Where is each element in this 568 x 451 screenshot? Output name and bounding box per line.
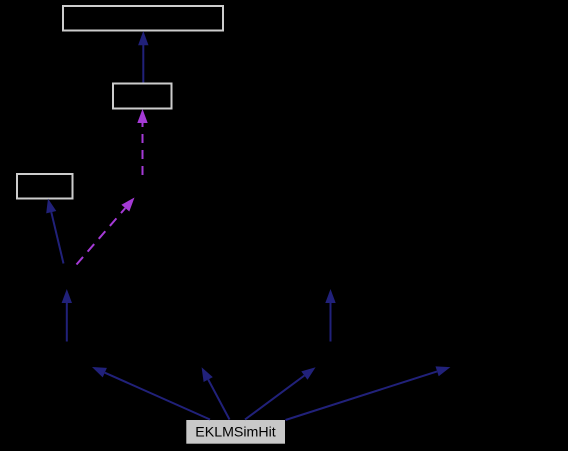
inheritance arrow from EKLMSimHit right-middle (solid navy): [245, 367, 316, 419]
usage arrow diagonal dashed purple toward middle column: [77, 198, 135, 265]
inheritance arrow from EKLMSimHit far left (solid navy): [92, 367, 210, 420]
inheritance arrow into left box (solid navy diagonal): [46, 199, 63, 264]
inheritance arrow vertical left column (solid navy): [62, 289, 72, 342]
class box (middle, empty label): [113, 84, 172, 109]
usage arrow vertical dashed purple into middle box: [137, 109, 147, 175]
inheritance arrow vertical right column (solid navy): [325, 289, 335, 342]
svg-text:EKLMSimHit: EKLMSimHit: [195, 425, 275, 441]
class box (top, empty label): [63, 6, 223, 31]
class box (left, empty label): [17, 174, 73, 199]
inheritance arrow from EKLMSimHit far right (solid navy): [286, 366, 451, 420]
node EKLMSimHit (filled gray): [186, 420, 285, 444]
inheritance arrow middle box to top box (solid navy): [138, 31, 148, 83]
inheritance arrow from EKLMSimHit left-middle (solid navy): [202, 367, 230, 419]
